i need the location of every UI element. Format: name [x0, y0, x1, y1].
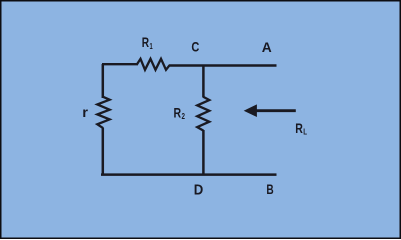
arrow RL (pointing left)	[244, 104, 296, 117]
wire: middle branch bottom segment	[202, 130, 205, 176]
svg-text:C: C	[191, 39, 199, 55]
wire: middle branch top segment	[202, 65, 205, 98]
resistor R2	[197, 97, 209, 131]
wire: top rail C-A	[169, 64, 277, 66]
wire: left branch top segment	[102, 64, 105, 98]
resistor R1	[137, 59, 170, 70]
wire: bottom rail D-B	[101, 173, 277, 176]
resistor r	[97, 97, 109, 128]
svg-text:r: r	[82, 105, 88, 121]
wire: top rail left lead	[102, 63, 138, 65]
wire: left branch bottom segment	[102, 128, 105, 176]
svg-text:B: B	[266, 182, 274, 198]
svg-text:D: D	[194, 181, 203, 198]
svg-text:A: A	[262, 40, 272, 55]
